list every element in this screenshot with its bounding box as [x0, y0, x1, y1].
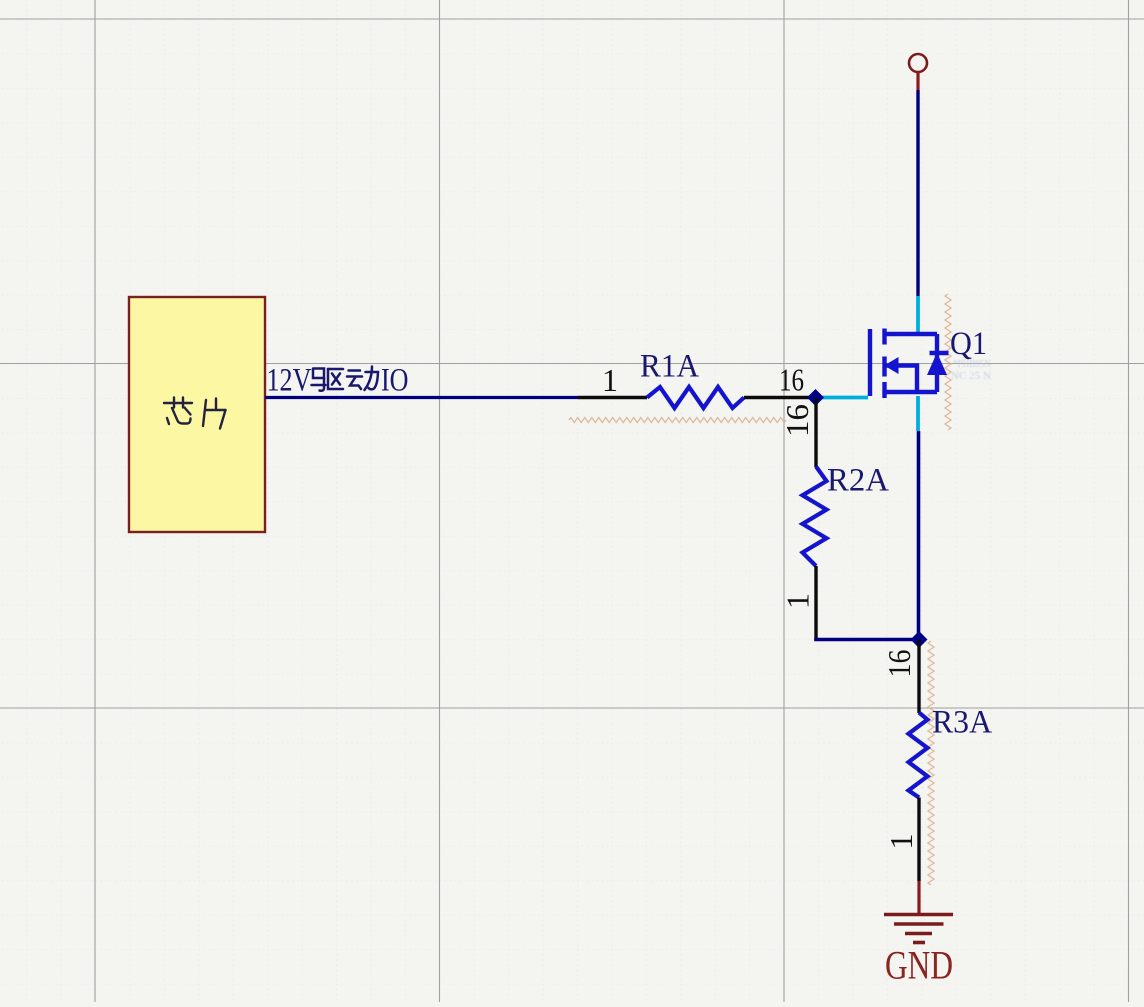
wire net 12V驱动IO (horizontal from chip)	[265, 396, 578, 399]
resistor R1A pin 1 lead	[578, 396, 647, 399]
junction node source/R2A/R3A	[911, 631, 928, 648]
power terminal circle (top)	[909, 54, 927, 72]
svg-text:1: 1	[780, 593, 816, 609]
resistor R3A pin 1 lead	[917, 798, 920, 882]
resistor R1A pin 16 lead	[744, 396, 816, 399]
net label 动	[347, 367, 378, 391]
svg-text:R1A: R1A	[640, 349, 699, 385]
svg-text:12V: 12V	[267, 363, 312, 399]
ground symbol	[884, 915, 953, 943]
source arrow line	[886, 366, 917, 393]
dimmed part number text	[951, 359, 991, 382]
channel segment bottom	[882, 382, 886, 398]
svg-text:1: 1	[602, 362, 618, 398]
svg-text:16: 16	[779, 362, 804, 398]
body diode triangle	[927, 353, 947, 376]
svg-text:1: 1	[883, 834, 919, 850]
transistor Q1 NMOS symbol	[870, 329, 949, 399]
resistor R2A body	[803, 467, 827, 567]
resistor R3A body	[909, 713, 928, 798]
junction node at gate/R1A/R2A	[807, 389, 824, 406]
drain lead	[885, 332, 938, 336]
resistor R3A pin 16 lead	[917, 640, 920, 714]
body diode bar vertical	[935, 334, 939, 392]
compile-mask squiggle right of R3A column	[928, 641, 934, 885]
svg-text:16: 16	[881, 650, 917, 678]
resistor R2A pin 1 lead	[814, 566, 817, 641]
drain pin of Q1 (cyan)	[916, 296, 920, 333]
compile-mask squiggle under R1A wire	[569, 418, 786, 423]
svg-text:Q1: Q1	[950, 326, 987, 362]
svg-text:*PHB95N: *PHB95N	[953, 359, 991, 370]
source arrowhead	[884, 357, 899, 374]
chip label 芯	[164, 398, 192, 425]
source pin of Q1 (cyan)	[916, 396, 920, 431]
gate bar	[868, 329, 872, 396]
svg-text:16: 16	[779, 404, 815, 437]
wire to GND	[917, 881, 920, 914]
wire R2A bottom to source node	[814, 638, 919, 642]
wire gate pin (cyan) to Q1	[816, 396, 868, 400]
svg-text:IO: IO	[381, 363, 409, 399]
source lead	[885, 390, 938, 394]
chip label 片	[203, 399, 226, 429]
wire drain net vertical	[916, 90, 919, 296]
stub from terminal	[916, 72, 919, 90]
chip block 芯片 (yellow sheet symbol)	[129, 297, 265, 532]
diode cathode bar	[930, 351, 949, 355]
resistor R1A body	[647, 387, 744, 408]
compile-mask squiggle right of Q1	[945, 294, 951, 430]
svg-text:NC 25 N: NC 25 N	[951, 371, 991, 382]
channel segment middle	[882, 357, 886, 377]
net label 驱	[312, 369, 344, 391]
resistor R2A pin 16 lead	[814, 398, 817, 468]
svg-text:R2A: R2A	[827, 463, 889, 499]
svg-text:GND: GND	[885, 943, 953, 988]
channel segment top	[882, 329, 886, 345]
svg-text:R3A: R3A	[932, 705, 992, 741]
wire source to node	[917, 431, 921, 641]
